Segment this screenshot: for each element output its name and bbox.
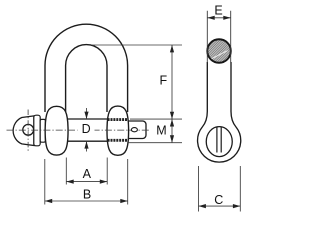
F arrows: [170, 45, 174, 119]
right lug: [107, 106, 129, 155]
shackle bow inner outline: [66, 45, 107, 112]
A dimension line: [66, 181, 107, 183]
pin slot line right: [220, 127, 222, 152]
B extension lines: [44, 159, 46, 205]
C dimension line: [199, 205, 241, 207]
svg-text:E: E: [214, 3, 222, 17]
side view inner circle (pin head side): [206, 127, 232, 157]
svg-text:M: M: [156, 124, 166, 138]
cotter hole in pin end: [131, 128, 137, 132]
F dimension line: [171, 45, 173, 119]
E extension lines: [207, 11, 230, 63]
D label background: [78, 121, 95, 135]
svg-text:A: A: [83, 167, 92, 181]
C arrows: [199, 204, 241, 208]
dimension set: [45, 16, 241, 212]
thread dashes upper: [108, 118, 129, 121]
thread dashes lower: [108, 139, 129, 142]
shackle bow outer outline: [45, 24, 128, 112]
ext line inner-bow top (F top): [92, 44, 182, 46]
A extension lines: [65, 158, 67, 185]
B arrows: [45, 199, 128, 203]
A arrows: [66, 180, 107, 184]
svg-text:F: F: [159, 74, 167, 88]
pin centerline horizontal: [7, 129, 151, 131]
hatch white streak: [212, 51, 228, 59]
pin shank: [66, 119, 109, 141]
D arrows: [86, 108, 88, 118]
B dimension line: [45, 200, 128, 202]
E arrows: [207, 16, 230, 20]
C extension lines: [198, 166, 200, 212]
svg-text:D: D: [82, 122, 91, 136]
left lug: [45, 106, 68, 155]
pin head eye: [13, 116, 34, 146]
svg-text:B: B: [83, 188, 91, 202]
pin head hole: [23, 124, 34, 135]
head centerline vertical: [27, 110, 29, 152]
pin slot line left: [216, 127, 218, 152]
M arrows: [170, 119, 174, 143]
pin collar: [34, 115, 40, 146]
E dimension line: [207, 17, 230, 19]
side view body outline: [198, 62, 241, 162]
bow cross-section hatched circle: [207, 39, 231, 63]
pin boss: [40, 119, 45, 142]
pin threaded end: [120, 121, 146, 139]
svg-text:C: C: [214, 193, 223, 207]
ext line pin top (M top): [130, 118, 182, 120]
ext line pin bottom (M bottom): [128, 142, 182, 144]
M dimension line: [171, 119, 173, 143]
